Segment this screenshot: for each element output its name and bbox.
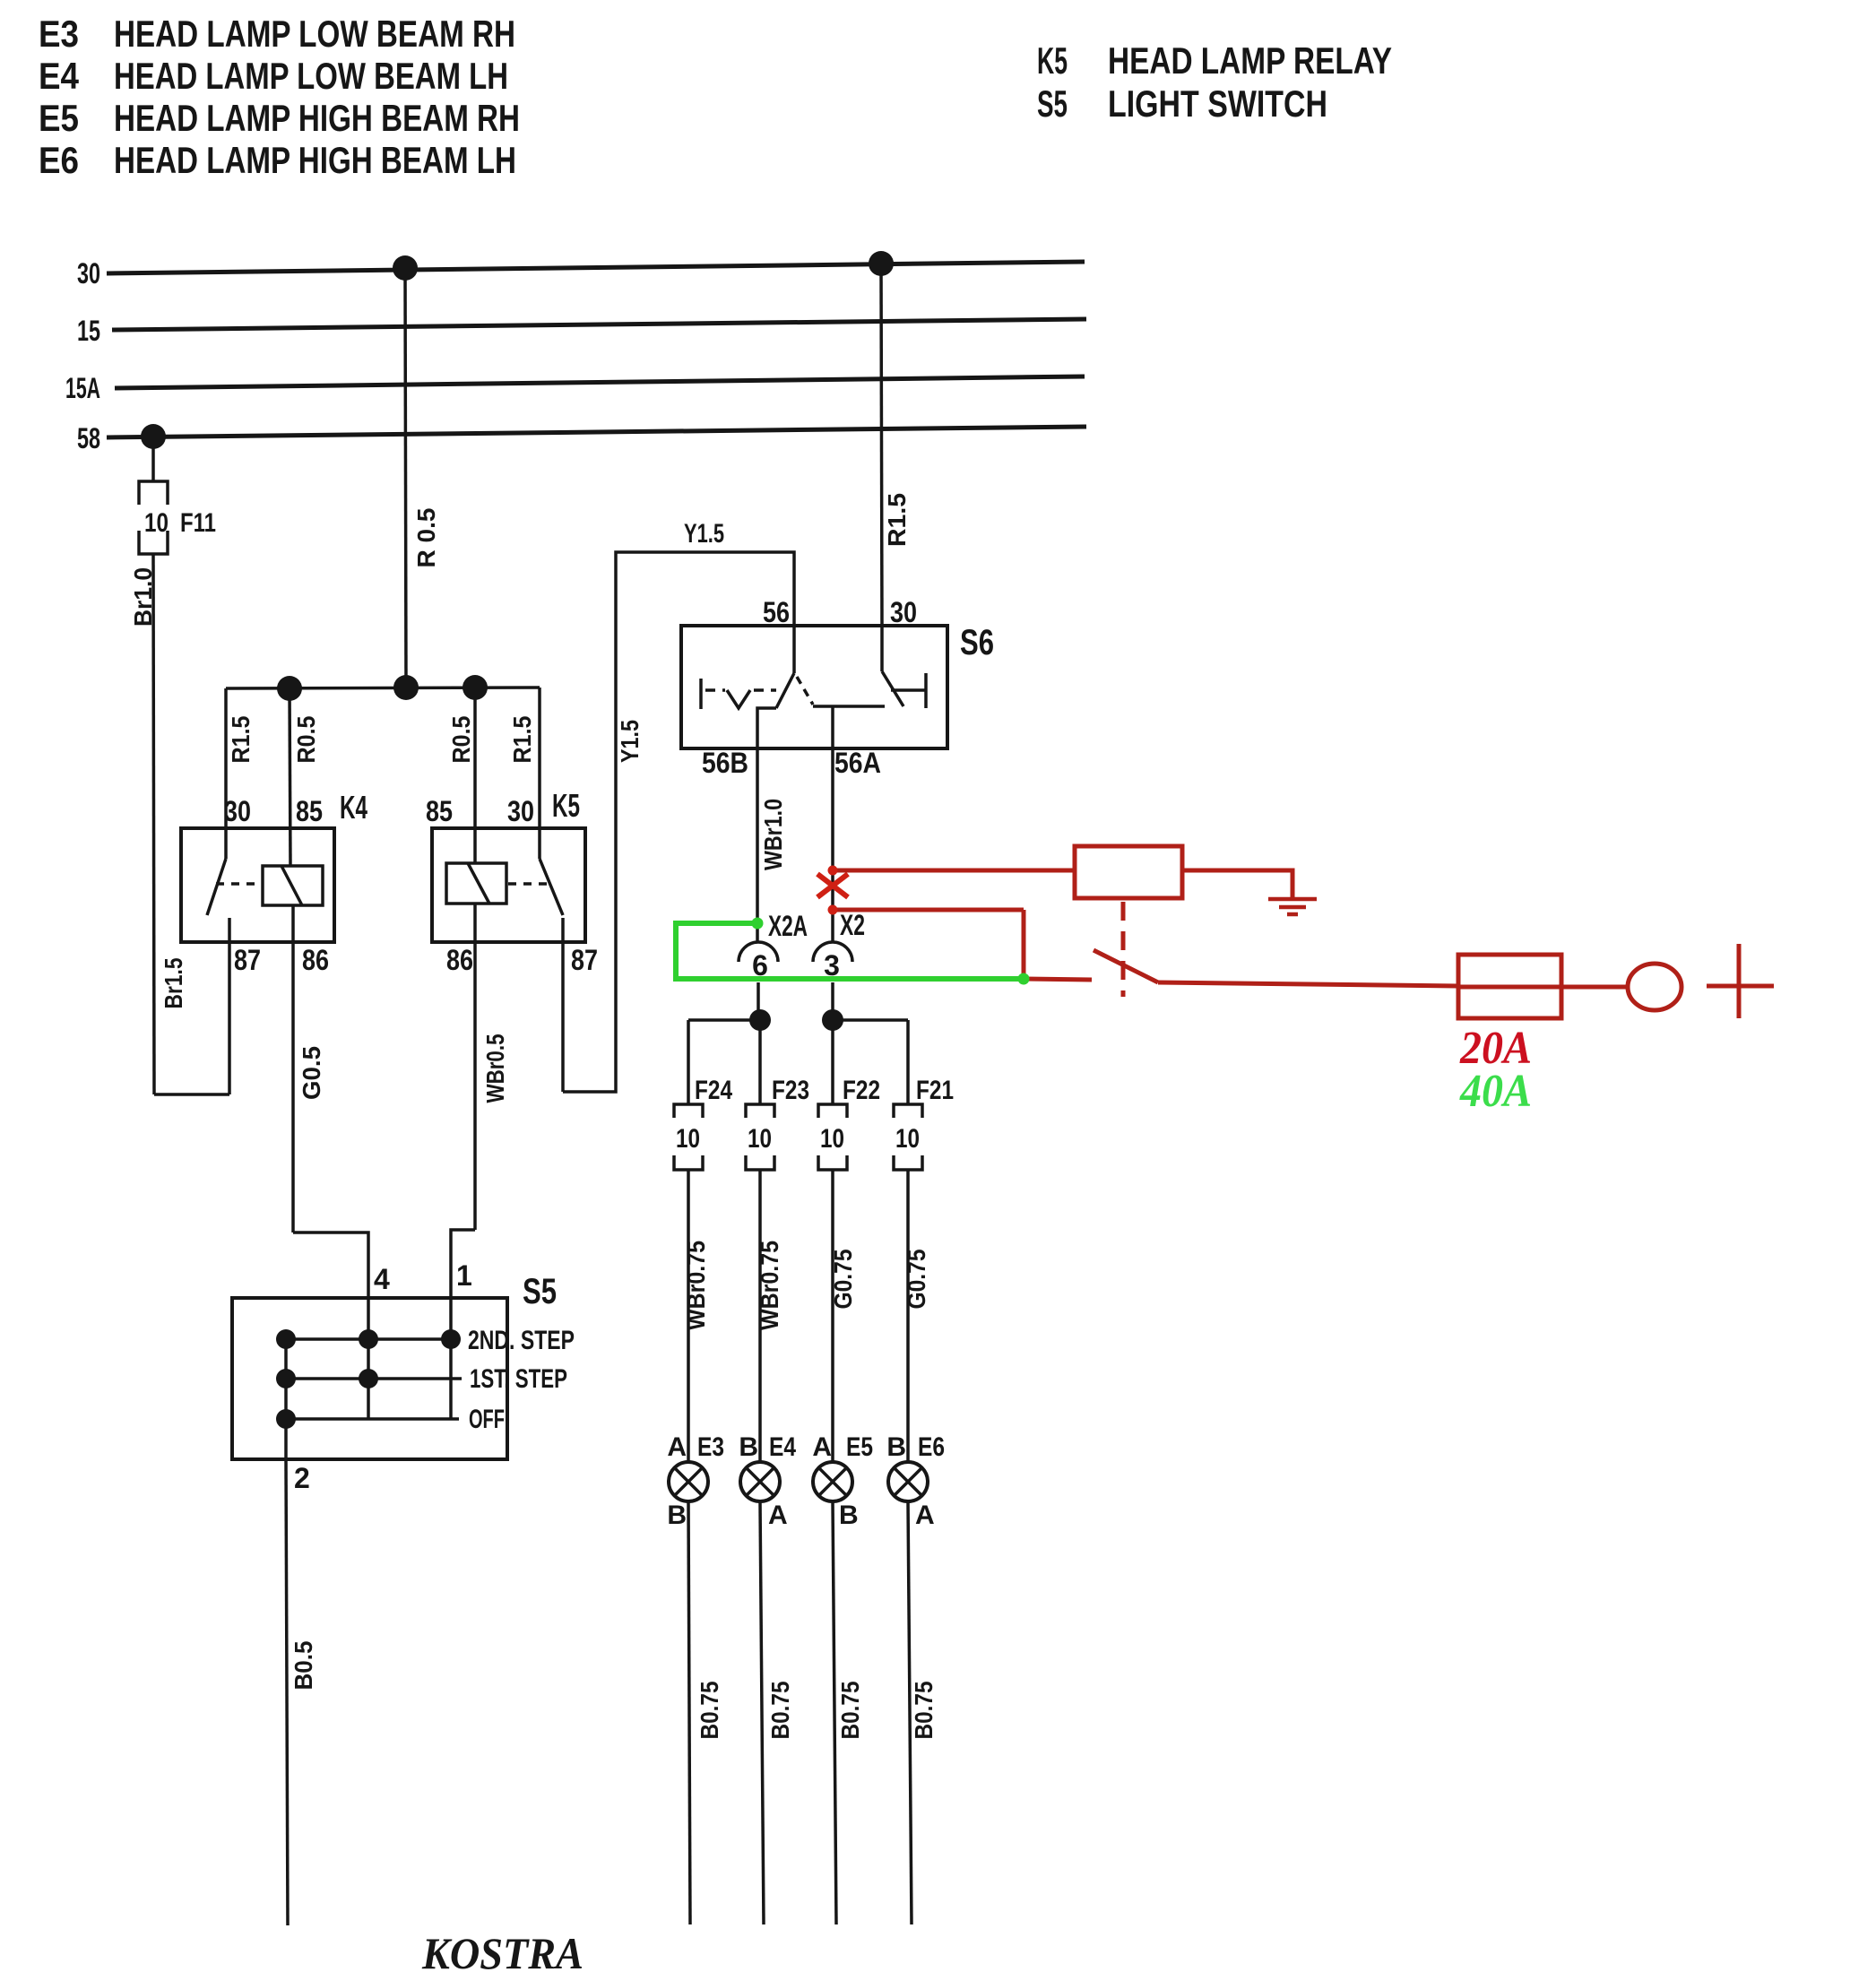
svg-text:87: 87: [571, 944, 598, 976]
svg-text:S5: S5: [1037, 82, 1068, 125]
svg-text:86: 86: [446, 944, 473, 976]
svg-text:Br1.5: Br1.5: [160, 958, 187, 1009]
svg-text:10: 10: [895, 1124, 920, 1154]
svg-text:Br1.0: Br1.0: [129, 567, 157, 627]
svg-text:2ND. STEP: 2ND. STEP: [468, 1326, 575, 1355]
svg-text:WBr1.0: WBr1.0: [759, 799, 787, 870]
svg-text:E6: E6: [918, 1432, 945, 1462]
svg-text:E5: E5: [39, 97, 79, 139]
svg-text:A: A: [768, 1501, 788, 1530]
svg-text:S5: S5: [523, 1272, 557, 1311]
svg-text:10: 10: [820, 1124, 844, 1154]
svg-text:KOSTRA: KOSTRA: [421, 1928, 584, 1972]
svg-text:S6: S6: [960, 623, 994, 662]
svg-text:WBr0.75: WBr0.75: [756, 1241, 783, 1330]
svg-text:WBr0.5: WBr0.5: [481, 1034, 509, 1103]
svg-text:F23: F23: [772, 1076, 809, 1105]
svg-text:E5: E5: [846, 1432, 873, 1462]
svg-text:30: 30: [77, 257, 100, 290]
svg-text:B0.5: B0.5: [290, 1641, 317, 1691]
svg-text:B0.75: B0.75: [696, 1682, 723, 1740]
svg-text:R 0.5: R 0.5: [412, 508, 440, 568]
svg-text:10: 10: [676, 1124, 700, 1154]
svg-text:HEAD LAMP RELAY: HEAD LAMP RELAY: [1108, 39, 1392, 82]
svg-text:K4: K4: [340, 789, 367, 826]
svg-text:G0.5: G0.5: [298, 1046, 325, 1100]
svg-text:B: B: [839, 1501, 859, 1530]
svg-text:R1.5: R1.5: [508, 716, 536, 764]
svg-text:86: 86: [302, 944, 329, 976]
svg-text:E6: E6: [39, 139, 79, 181]
svg-text:40A: 40A: [1459, 1066, 1532, 1117]
svg-text:G0.75: G0.75: [829, 1250, 857, 1310]
svg-text:B0.75: B0.75: [766, 1682, 794, 1740]
svg-text:WBr0.75: WBr0.75: [682, 1241, 710, 1330]
svg-text:B0.75: B0.75: [836, 1682, 864, 1740]
svg-text:F22: F22: [843, 1076, 880, 1105]
svg-text:B: B: [886, 1432, 906, 1462]
svg-text:R1.5: R1.5: [883, 493, 911, 547]
svg-text:R1.5: R1.5: [227, 716, 255, 764]
svg-text:30: 30: [507, 795, 534, 827]
svg-text:X2A: X2A: [768, 910, 808, 942]
svg-text:HEAD LAMP LOW BEAM LH: HEAD LAMP LOW BEAM LH: [114, 55, 508, 97]
svg-text:HEAD LAMP HIGH BEAM RH: HEAD LAMP HIGH BEAM RH: [114, 97, 520, 139]
svg-text:B: B: [739, 1432, 758, 1462]
svg-text:10: 10: [748, 1124, 772, 1154]
svg-text:30: 30: [224, 795, 251, 827]
svg-text:K5: K5: [1037, 39, 1068, 82]
svg-text:56B: 56B: [702, 747, 748, 779]
svg-text:Y1.5: Y1.5: [684, 519, 724, 549]
svg-text:58: 58: [77, 422, 100, 454]
svg-text:3: 3: [824, 949, 840, 982]
svg-text:E4: E4: [769, 1432, 796, 1462]
svg-text:A: A: [667, 1432, 687, 1462]
svg-text:E4: E4: [39, 55, 80, 97]
svg-text:Y1.5: Y1.5: [616, 720, 644, 763]
svg-text:30: 30: [890, 596, 917, 628]
svg-text:B0.75: B0.75: [910, 1682, 938, 1740]
svg-text:OFF: OFF: [469, 1405, 505, 1434]
svg-text:LIGHT SWITCH: LIGHT SWITCH: [1108, 82, 1327, 125]
svg-text:HEAD LAMP LOW BEAM RH: HEAD LAMP LOW BEAM RH: [114, 13, 515, 55]
svg-text:G0.75: G0.75: [903, 1250, 930, 1310]
svg-text:HEAD LAMP HIGH BEAM LH: HEAD LAMP HIGH BEAM LH: [114, 139, 516, 181]
svg-text:A: A: [915, 1501, 935, 1530]
svg-text:A: A: [812, 1432, 832, 1462]
svg-text:87: 87: [234, 944, 261, 976]
svg-text:X2: X2: [840, 909, 865, 941]
svg-text:85: 85: [296, 795, 323, 827]
svg-text:6: 6: [752, 949, 768, 982]
svg-text:15A: 15A: [65, 372, 100, 404]
svg-text:56: 56: [763, 596, 790, 628]
svg-text:B: B: [667, 1501, 687, 1530]
svg-text:F11: F11: [180, 508, 216, 538]
svg-text:15: 15: [77, 315, 100, 347]
svg-text:E3: E3: [39, 13, 79, 55]
svg-text:56A: 56A: [834, 747, 881, 779]
svg-text:1ST. STEP: 1ST. STEP: [470, 1364, 567, 1394]
svg-text:1: 1: [456, 1259, 472, 1292]
svg-text:R0.5: R0.5: [292, 716, 320, 764]
svg-text:10: 10: [144, 508, 169, 538]
svg-text:R0.5: R0.5: [447, 716, 475, 764]
svg-text:F21: F21: [916, 1076, 954, 1105]
svg-text:2: 2: [294, 1462, 310, 1494]
svg-text:E3: E3: [697, 1432, 724, 1462]
svg-text:K5: K5: [552, 787, 580, 824]
svg-text:F24: F24: [695, 1076, 732, 1105]
svg-text:4: 4: [374, 1263, 390, 1295]
svg-text:85: 85: [426, 795, 453, 827]
